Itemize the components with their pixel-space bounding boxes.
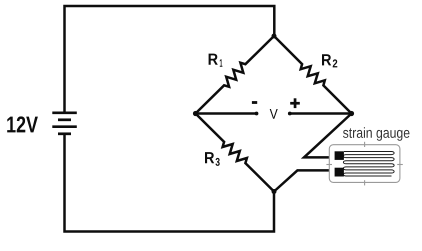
strain gauge solder pad top <box>335 151 344 160</box>
node top vertex <box>272 34 277 39</box>
strain gauge solder pad bottom <box>335 168 344 177</box>
wire top from battery to bridge <box>65 6 275 112</box>
strain gauge serpentine grid <box>343 152 394 177</box>
wire from bottom vertex to strain gauge bottom pad <box>274 170 337 191</box>
label R1 <box>209 54 223 67</box>
label R2 <box>322 54 337 67</box>
wire bottom from battery to bridge <box>65 134 275 232</box>
battery 12V plates <box>52 113 77 134</box>
node bottom vertex <box>272 189 277 194</box>
strain gauge body <box>329 145 400 183</box>
resistor R3 <box>196 114 275 192</box>
resistor R1 <box>196 36 275 114</box>
node meter left terminal <box>255 112 259 116</box>
node left vertex <box>193 111 198 116</box>
node meter right terminal <box>288 112 292 116</box>
strain gauge alignment tick top <box>364 142 366 147</box>
strain gauge alignment tick bottom <box>364 180 366 185</box>
wire from right vertex to strain gauge top pad <box>304 114 352 158</box>
label R3 <box>205 152 220 166</box>
strain gauge alignment tick right <box>397 164 403 166</box>
wire meter right <box>290 112 352 115</box>
resistor R2 <box>274 36 352 114</box>
label 12V <box>7 116 38 132</box>
wire meter left <box>196 112 257 115</box>
node right vertex <box>349 111 354 116</box>
label plus sign <box>290 98 300 108</box>
label V voltmeter <box>270 109 278 119</box>
label strain gauge <box>343 127 410 141</box>
label minus sign <box>252 101 257 104</box>
strain gauge alignment tick left <box>326 164 332 166</box>
